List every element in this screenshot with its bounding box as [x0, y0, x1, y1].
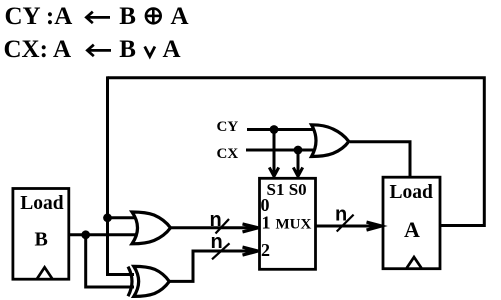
svg-text:1: 1 — [262, 213, 271, 233]
svg-text:MUX: MUX — [276, 217, 312, 233]
svg-text:2: 2 — [261, 240, 270, 260]
svg-text:Load: Load — [20, 193, 64, 214]
svg-text:CX: CX — [217, 146, 239, 162]
svg-text:A: A — [53, 36, 71, 63]
svg-text:A: A — [163, 36, 181, 63]
svg-text:B: B — [119, 3, 136, 30]
svg-text:CY: CY — [217, 119, 239, 135]
svg-text:n: n — [335, 204, 347, 226]
svg-text:A: A — [171, 3, 189, 30]
svg-text:Load: Load — [390, 182, 434, 203]
svg-text:A: A — [404, 217, 420, 242]
svg-text:B: B — [35, 229, 48, 251]
svg-text:S1 S0: S1 S0 — [267, 180, 307, 199]
svg-text:CY :A: CY :A — [5, 3, 73, 30]
svg-text:B: B — [119, 36, 136, 63]
svg-text:n: n — [210, 209, 222, 231]
svg-text:CX:: CX: — [4, 36, 48, 63]
svg-text:n: n — [211, 231, 223, 253]
